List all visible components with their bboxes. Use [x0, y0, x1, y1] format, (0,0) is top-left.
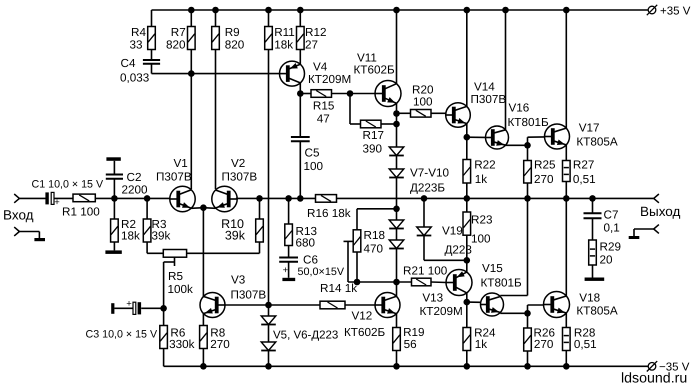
wire V9 to V10 [396, 229, 398, 241]
svg-text:П307В: П307В [156, 171, 192, 184]
svg-text:20: 20 [600, 254, 614, 267]
label V5 V6 [273, 330, 338, 342]
svg-text:R9: R9 [225, 26, 240, 39]
wire wiper to R21 [348, 281, 412, 283]
label R19 [403, 326, 424, 351]
svg-text:39k: 39k [152, 230, 171, 243]
wire R13 to C6 [288, 246, 290, 258]
wire -35V bottom rail [164, 365, 649, 367]
svg-text:R12: R12 [305, 26, 326, 39]
wire R23 to node [466, 235, 468, 260]
wire C2 to bus [113, 179, 115, 199]
svg-text:R4: R4 [131, 26, 146, 39]
svg-text:18k: 18k [121, 230, 140, 243]
terminal input ground [14, 227, 39, 238]
resistor R27 [563, 161, 571, 182]
wire R1 to V1 base [95, 197, 170, 199]
label V3 [231, 273, 267, 301]
svg-text:V18: V18 [579, 291, 600, 304]
wire R5 to R10 [187, 252, 260, 254]
node rail-R9 junction [212, 7, 219, 14]
svg-text:270: 270 [534, 338, 554, 351]
label V11 [354, 52, 395, 77]
label R1 [62, 206, 100, 219]
resistor R5 [163, 250, 186, 258]
svg-text:Вход: Вход [3, 208, 34, 223]
node R10 junction [256, 195, 263, 202]
terminal -35 V [647, 361, 690, 374]
svg-text:C2: C2 [127, 171, 142, 184]
wire gnd to C2 [113, 161, 115, 175]
label R2 [121, 218, 140, 243]
svg-text:0,1: 0,1 [604, 222, 620, 235]
wire V11 collector to rail [396, 10, 398, 84]
resistor R6 [160, 326, 168, 349]
wire node to R14 [269, 304, 321, 306]
wire V19 to R23 node [424, 236, 467, 261]
node R18 top junction [393, 206, 400, 213]
svg-text:100: 100 [413, 96, 433, 109]
wire R18 wiper [344, 241, 354, 282]
transistor V1 [170, 186, 195, 211]
svg-text:R7: R7 [171, 26, 186, 39]
resistor R13 [285, 224, 293, 246]
label R5 [168, 270, 194, 296]
svg-text:18k: 18k [274, 39, 293, 52]
svg-text:+35 V: +35 V [660, 6, 691, 18]
node rail-V17 junction [563, 7, 570, 14]
transistor V4 [280, 61, 305, 86]
wire R18 top [357, 209, 397, 230]
svg-text:R29: R29 [600, 241, 621, 254]
diode V6 [261, 342, 276, 351]
wire R26 to rail [527, 351, 529, 366]
svg-text:R21 100: R21 100 [403, 265, 448, 278]
node R27-V18 junction [563, 195, 570, 202]
svg-text:R16 18k: R16 18k [307, 207, 351, 220]
node botrail-R8 junction [200, 363, 207, 370]
terminal input signal [14, 194, 19, 203]
label C1 value [32, 178, 104, 190]
wire bus to C7 [592, 198, 594, 213]
label R14 [320, 282, 357, 295]
svg-text:0,033: 0,033 [120, 72, 149, 85]
svg-text:0,51: 0,51 [573, 173, 596, 186]
label V14 [471, 81, 507, 107]
node botrail-R26 junction [524, 363, 531, 370]
transistor V11 [375, 81, 401, 107]
wire R17 to emitter column [381, 123, 397, 125]
svg-text:100: 100 [471, 233, 491, 246]
svg-text:V5, V6-Д223: V5, V6-Д223 [273, 330, 338, 342]
resistor R24 [463, 328, 471, 351]
wire V15 collector to bus [500, 198, 527, 296]
node R25-V15 junction [524, 195, 531, 202]
diode V19 [417, 227, 432, 236]
wire R14 to V12 base [345, 304, 375, 306]
label R18 [364, 229, 385, 256]
svg-text:П307В: П307В [222, 171, 258, 184]
label V12 [344, 310, 385, 340]
wire C7 to R29 [592, 218, 594, 240]
svg-text:33: 33 [129, 39, 142, 52]
wire bus to R10 [259, 198, 261, 219]
wire V17 collector to rail [565, 10, 567, 128]
label R26 [534, 326, 555, 351]
svg-text:КТ209М: КТ209М [308, 73, 351, 86]
node R13 junction [285, 195, 292, 202]
wire V3 base node down [268, 304, 270, 306]
terminal output ground [634, 225, 659, 236]
wire R8 to rail [202, 349, 204, 367]
wire node to V15 base [467, 301, 481, 303]
svg-text:270: 270 [210, 338, 230, 351]
label R21 [403, 265, 448, 278]
wire bus to V19 [423, 198, 425, 227]
wire node to V9 [396, 209, 398, 220]
svg-text:470: 470 [364, 243, 384, 256]
node rail-V14 junction [464, 7, 471, 14]
resistor R16 [316, 195, 337, 203]
svg-text:270: 270 [534, 173, 554, 186]
resistor R7 [188, 27, 196, 50]
label R8 [210, 326, 230, 351]
svg-text:27: 27 [305, 39, 318, 52]
node R18 bottom junction [354, 279, 361, 286]
wire R12 to V4 emitter [299, 50, 301, 65]
wire R25 to bus [527, 183, 529, 198]
svg-text:100: 100 [304, 160, 324, 173]
svg-text:39k: 39k [225, 229, 246, 243]
label V13 [420, 292, 463, 318]
svg-text:П307В: П307В [231, 288, 267, 301]
ground C2 top [106, 157, 120, 161]
wire V11 emitter down [396, 103, 398, 113]
wire R15 left [300, 93, 311, 95]
label V19 [442, 225, 472, 257]
resistor R26 [524, 328, 532, 351]
svg-text:КТ805А: КТ805А [576, 305, 617, 318]
wire rail to R4 [151, 10, 153, 27]
node V3 base junction [265, 302, 272, 309]
resistor R3 [143, 219, 151, 242]
label R9 [225, 26, 245, 52]
svg-text:680: 680 [296, 237, 316, 250]
node C3-R6 junction [160, 305, 167, 312]
svg-text:R1 100: R1 100 [62, 206, 100, 219]
node rail-V16 junction [502, 7, 509, 14]
svg-text:C7: C7 [604, 209, 619, 222]
wire V12 emitter to R19 [396, 314, 398, 328]
watermark ldsound.ru [621, 370, 687, 386]
svg-text:КТ602Б: КТ602Б [344, 326, 385, 339]
label C6 [298, 254, 345, 278]
transistor V3 [200, 293, 225, 318]
wire R10 to R5 line [259, 242, 261, 253]
capacitor C6 [279, 258, 298, 276]
label C2 [122, 171, 149, 197]
transistor V13 [446, 270, 472, 296]
wire rail to R12 [299, 10, 301, 27]
wire R3 to R5 line [147, 242, 163, 253]
wire V17 emitter to R27 [565, 145, 567, 161]
wire R28 to rail [565, 351, 567, 367]
node botrail-R28 junction [563, 363, 570, 370]
label V2 [222, 157, 258, 184]
svg-text:V19: V19 [442, 225, 463, 238]
svg-text:ldsound.ru: ldsound.ru [621, 370, 687, 386]
node R17-chain junction [393, 121, 400, 128]
wire bus to R2 [113, 198, 115, 219]
resistor R4 [148, 27, 156, 50]
wire C1 to R1 [54, 197, 73, 199]
svg-text:1k: 1k [475, 338, 488, 351]
label V7-V10 [410, 167, 449, 195]
label R22 [474, 159, 495, 186]
wire V3 emitter to R8 [202, 314, 204, 326]
wire C4 to V4 base line [152, 64, 280, 74]
capacitor C2 [106, 175, 123, 179]
wire C6 to gnd [288, 262, 290, 278]
svg-text:V15: V15 [482, 262, 503, 275]
wire V6 to rail [268, 351, 270, 367]
svg-text:R15: R15 [313, 99, 335, 112]
resistor R28 [563, 328, 571, 351]
label R10 [221, 217, 246, 243]
label Vyhod [640, 204, 681, 219]
diode V7 [389, 147, 404, 156]
label R6 [169, 326, 195, 351]
label R3 [152, 218, 171, 243]
resistor R9 [212, 27, 220, 50]
svg-text:330k: 330k [169, 338, 195, 351]
wire R17 branch [350, 94, 361, 125]
svg-text:КТ602Б: КТ602Б [354, 64, 395, 77]
wire V16 collector to rail [505, 10, 507, 130]
svg-text:V2: V2 [231, 157, 245, 170]
ground input [34, 238, 45, 241]
svg-text:КТ209М: КТ209М [420, 305, 463, 318]
wire V16 emitter [506, 144, 528, 147]
label R29 [600, 241, 621, 267]
wire R29 to gnd [592, 265, 594, 278]
ground output [629, 236, 640, 239]
svg-text:V1: V1 [174, 157, 188, 170]
svg-text:R25: R25 [534, 159, 556, 172]
wire V18 emitter to R28 [565, 313, 567, 328]
capacitor C4 [143, 60, 160, 64]
node V14 emitter junction [464, 134, 471, 141]
transistor V18 [544, 292, 570, 318]
node rail-R7 junction [188, 7, 195, 14]
svg-text:C5: C5 [305, 147, 320, 160]
node rail-R11 junction [265, 7, 272, 14]
wire R11 to V3 base node [268, 50, 270, 306]
svg-text:56: 56 [404, 338, 417, 351]
wire V14 emitter junction to R22 [466, 137, 468, 159]
capacitor C1 [45, 192, 60, 207]
svg-text:V16: V16 [509, 101, 530, 114]
wire R2 to gnd [113, 242, 115, 250]
wire R21 to V13 base [431, 281, 447, 284]
resistor R22 [463, 160, 471, 184]
svg-text:100k: 100k [168, 283, 194, 296]
wire bus to R23 [466, 198, 468, 212]
svg-text:1k: 1k [475, 173, 488, 186]
svg-text:R27: R27 [573, 159, 594, 172]
wire V14 collector to rail [466, 10, 468, 107]
svg-text:R22: R22 [474, 159, 495, 172]
wire to V16 base [467, 136, 486, 138]
wire R22 to bus [466, 183, 468, 198]
label R23 [471, 214, 492, 246]
resistor R18 [353, 230, 361, 252]
wire R20 to V14 base [431, 112, 447, 114]
svg-text:КТ801Б: КТ801Б [481, 277, 522, 290]
wire V14 emitter down [466, 123, 468, 137]
label V17 [576, 122, 617, 149]
ground R2 bottom [105, 250, 121, 254]
wire bus V2 to R16 [236, 197, 316, 199]
svg-text:Д223Б: Д223Б [410, 182, 445, 195]
label Vhod [3, 208, 34, 223]
svg-text:V3: V3 [231, 273, 245, 286]
diode V10 [389, 240, 404, 249]
wire junction to V18 base [528, 305, 544, 313]
svg-text:+: + [283, 265, 289, 276]
node R2 junction [111, 195, 118, 202]
svg-text:C6: C6 [303, 254, 318, 267]
transistor V17 [545, 124, 570, 149]
resistor R25 [524, 161, 532, 184]
node V11 emitter junction [393, 110, 400, 117]
resistor R1 [73, 194, 95, 202]
wire V15 emitter [500, 312, 527, 314]
label R25 [534, 159, 556, 186]
resistor R8 [200, 326, 208, 349]
node V12 collector junction [393, 279, 400, 286]
label V1 [156, 157, 192, 184]
svg-text:КТ805А: КТ805А [576, 136, 617, 149]
svg-text:2200: 2200 [122, 184, 149, 197]
node V13-R24 junction [464, 299, 471, 306]
transistor V2 [212, 186, 237, 211]
wire junction to R25 [527, 145, 529, 160]
svg-text:50,0×15V: 50,0×15V [298, 266, 345, 278]
svg-text:C4: C4 [121, 57, 136, 70]
wire emitter to R20 [397, 112, 411, 114]
wire C5 to bus [299, 141, 301, 198]
wire R6 to rail [163, 349, 165, 367]
label C3 value [86, 329, 158, 341]
wire R4 to C4 [151, 50, 153, 61]
svg-text:47: 47 [317, 112, 330, 125]
svg-text:V7-V10: V7-V10 [410, 167, 449, 180]
wire V3 base [225, 304, 269, 306]
node C5 junction [297, 195, 304, 202]
svg-text:Д223: Д223 [445, 244, 472, 257]
wire bus to R3 [146, 198, 148, 219]
wire R7 to V1 collector [190, 50, 192, 190]
wire node to R24 [466, 302, 468, 327]
svg-text:R11: R11 [274, 26, 295, 39]
svg-text:C3 10,0 × 15 V: C3 10,0 × 15 V [86, 329, 158, 341]
wire bus to R13 [288, 198, 290, 224]
svg-text:R5: R5 [168, 270, 183, 283]
wire R15 to V11 base [332, 93, 376, 95]
diode V8 [389, 169, 404, 178]
resistor R17 [361, 120, 382, 128]
wire chain top [396, 114, 398, 148]
svg-text:820: 820 [225, 39, 245, 52]
wire node to V5 [268, 305, 270, 316]
wire bus R16 to output [337, 197, 654, 199]
svg-text:R23: R23 [471, 214, 492, 227]
wire R5 line left [162, 252, 164, 254]
wire V8 to R18 node [396, 178, 398, 209]
wire V12 collector up [396, 282, 398, 297]
svg-text:R18: R18 [364, 229, 385, 242]
wire node to R6 [163, 308, 165, 325]
wire input to C1 [19, 197, 45, 199]
label R20 [412, 84, 434, 109]
svg-text:V12: V12 [352, 310, 373, 323]
svg-text:V4: V4 [313, 61, 328, 74]
resistor R2 [111, 219, 119, 242]
node V19 junction [421, 195, 428, 202]
wire rail to R11 [268, 10, 270, 27]
label R12 [305, 26, 326, 52]
resistor R19 [393, 328, 401, 351]
label V15 [481, 262, 522, 290]
resistor R12 [297, 27, 305, 50]
wire V4 collector to C5 [299, 83, 301, 94]
svg-text:П307В: П307В [471, 93, 507, 106]
terminal +35 V [647, 5, 691, 18]
label C4 [120, 57, 149, 85]
label R16 [307, 207, 351, 220]
label V16 [508, 101, 549, 129]
svg-text:390: 390 [363, 143, 383, 156]
node R23-V19-V13 junction [464, 257, 471, 264]
ground R29 bottom [585, 278, 605, 281]
svg-text:0,51: 0,51 [574, 338, 597, 351]
label R17 [363, 129, 384, 156]
svg-text:КТ801Б: КТ801Б [508, 116, 549, 129]
label V18 [576, 291, 617, 317]
resistor R23 [463, 212, 471, 235]
svg-text:C1 10,0 × 15 V: C1 10,0 × 15 V [32, 178, 104, 190]
label C5 [304, 147, 324, 173]
wire R24 to rail [466, 351, 468, 367]
capacitor C5 [291, 137, 310, 141]
wire R19 to rail [396, 351, 398, 367]
wire V13 collector down [466, 293, 468, 303]
ground C6 bottom [282, 278, 295, 281]
wire V13 emitter up [466, 260, 468, 272]
node botrail-R24 junction [464, 363, 471, 370]
resistor R14 [320, 301, 345, 309]
wire R5 wiper [164, 257, 175, 308]
svg-text:R14 1k: R14 1k [320, 282, 357, 295]
terminal output signal [654, 194, 659, 203]
wire V7 to V8 [396, 156, 398, 170]
node botrail-V6 junction [265, 363, 272, 370]
node C4-R7 junction [188, 70, 195, 77]
svg-text:V17: V17 [579, 122, 600, 135]
node R22-R23 junction [464, 195, 471, 202]
wire V5 to V6 [268, 325, 270, 343]
